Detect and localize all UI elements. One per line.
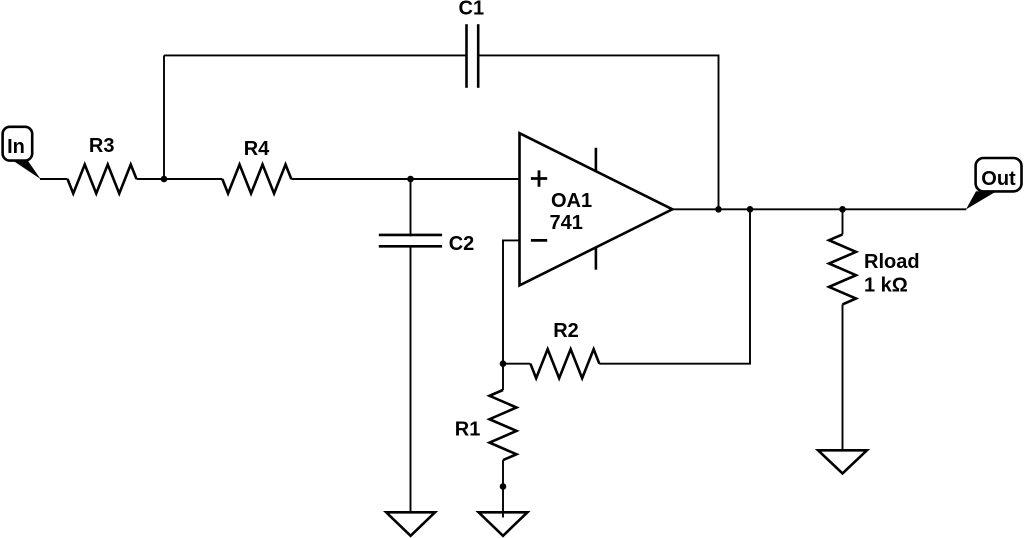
svg-text:R1: R1 — [455, 419, 481, 441]
net label Out — [966, 158, 1022, 209]
wire op-amp output — [672, 208, 966, 210]
wire R1 ground lead — [502, 487, 504, 518]
wire R2 feedback from output — [599, 209, 750, 363]
net label In — [3, 127, 41, 179]
node B junction (C2 tap) — [407, 176, 414, 183]
svg-text:OA1: OA1 — [551, 190, 592, 212]
node A junction — [161, 176, 168, 183]
resistor R3 — [68, 135, 137, 194]
junction inverting node — [500, 360, 507, 367]
wire R3 to node A — [137, 178, 165, 180]
wire Rload bottom lead — [842, 304, 844, 450]
capacitor C2 — [379, 233, 474, 255]
wire node A to R4 — [164, 178, 222, 180]
junction output / Rload — [839, 206, 846, 213]
ground (Rload) — [818, 450, 867, 473]
wire top feedback right segment down to output — [478, 55, 718, 209]
svg-text:In: In — [7, 136, 25, 158]
resistor Rload 1 kOhm — [829, 234, 920, 304]
wire Rload top lead — [842, 209, 844, 234]
junction R1 to ground — [500, 483, 507, 490]
wire R4 to op-amp non-inverting input — [291, 178, 519, 180]
svg-text:R4: R4 — [244, 138, 270, 160]
op-amp OA1 741 — [520, 133, 673, 285]
svg-text:Out: Out — [981, 168, 1016, 190]
wire top feedback left segment — [164, 54, 467, 56]
svg-text:C1: C1 — [459, 0, 485, 20]
svg-text:R2: R2 — [553, 320, 579, 342]
resistor R4 — [222, 138, 291, 193]
svg-text:741: 741 — [550, 212, 583, 234]
svg-text:Rload: Rload — [864, 251, 920, 273]
negative supply pin stub — [595, 248, 598, 270]
wire node B down to C2 — [410, 179, 412, 236]
wire inverting input jog down — [503, 240, 520, 363]
capacitor C1 — [459, 0, 485, 88]
ground (R1) — [479, 512, 528, 536]
junction output / R2 feedback — [747, 206, 754, 213]
minus marker (inverting input) — [531, 239, 547, 242]
op-amp body — [520, 133, 673, 285]
wire node A up to feedback — [163, 55, 165, 179]
positive supply pin stub — [595, 148, 598, 172]
svg-text:1 kΩ: 1 kΩ — [864, 275, 908, 297]
wire C2 to ground — [410, 246, 412, 512]
ground (C2) — [386, 512, 435, 536]
wire inverting node to R2 — [503, 363, 530, 365]
resistor R1 — [455, 364, 517, 487]
svg-text:C2: C2 — [449, 233, 475, 255]
svg-text:R3: R3 — [89, 135, 115, 157]
wire In to R3 — [40, 178, 68, 180]
resistor R2 — [530, 320, 599, 378]
plus marker (non-inverting input) — [531, 170, 547, 186]
junction output / C1 feedback — [715, 206, 722, 213]
